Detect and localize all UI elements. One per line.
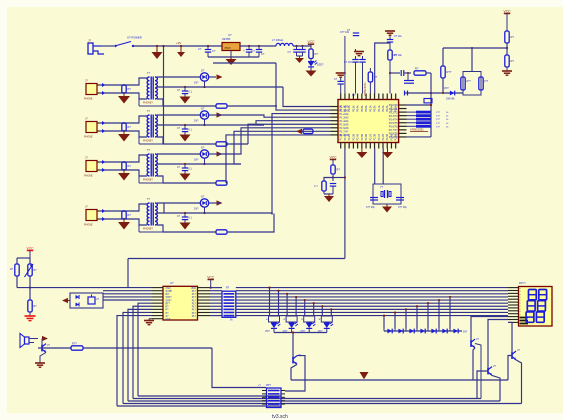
diode drop 4 — [416, 306, 418, 328]
svg-text:P2.0B: P2.0B — [374, 134, 377, 141]
transformer T4 — [147, 203, 149, 225]
level row resistor R (channel 3) — [163, 182, 216, 184]
V2 base wire from bottom loop — [475, 344, 481, 399]
wire comparator box top to divider rail — [471, 48, 473, 72]
diode drop 2 — [394, 312, 396, 328]
resistor R on chain to x431 — [414, 71, 426, 75]
svg-text:VD?: VD? — [265, 330, 270, 333]
svg-text:P0.1A: P0.1A — [378, 105, 381, 112]
filter cap C5 — [301, 45, 303, 47]
svg-text:P1.3/A3: P1.3/A3 — [340, 116, 350, 119]
transformer secondary top wire (channel 1) — [157, 76, 200, 78]
ground below LED — [310, 67, 312, 71]
speaker transistor Q — [41, 345, 43, 352]
bus wire channel3 level row to MCU pin 9 — [226, 135, 331, 183]
inverted ground + twin caps above MCU — [354, 51, 364, 53]
bright red ground bottom-left — [25, 315, 36, 317]
svg-text:R?: R? — [315, 52, 319, 56]
LED common rail — [274, 332, 327, 334]
svg-text:R?: R? — [415, 67, 419, 71]
digit transistor V4 — [511, 352, 513, 359]
bus wire aux row to MCU pin 2 — [276, 63, 331, 110]
crystal ground — [386, 204, 388, 207]
LED VD3 cathode wire — [308, 328, 310, 332]
IR box output wires to lower IC — [103, 290, 152, 292]
detector diode D (channel 1) — [200, 73, 208, 81]
LED VD4 box — [321, 316, 332, 322]
secondary bottom to level row (channel 2) — [157, 137, 163, 144]
svg-text:R?: R? — [511, 59, 515, 63]
LED VD4 cathode wire — [326, 328, 328, 332]
vertical wire x431 to MCU right pins — [430, 73, 432, 137]
detector diode D (channel 3) — [200, 150, 208, 158]
svg-text:C?: C? — [212, 49, 216, 53]
svg-text:PHONE: PHONE — [84, 175, 93, 178]
svg-text:+: + — [243, 49, 245, 53]
regulator U2 7805 — [222, 43, 240, 51]
svg-text:R??: R?? — [467, 81, 472, 83]
RC pair to ground below MCU — [324, 178, 333, 182]
input resistor R (channel 2) — [122, 123, 126, 131]
diode drop 3 — [405, 309, 407, 328]
LED VD4 — [324, 322, 330, 324]
wire connector top to transformer T3 primary — [100, 155, 147, 162]
wire connector top to transformer T1 primary — [100, 78, 147, 85]
detector diode D (channel 2) — [200, 111, 208, 119]
connector J5 (channel 4) — [86, 210, 97, 221]
diode drop 6 — [438, 300, 440, 328]
filter cap + ground (channel 4) — [184, 212, 186, 214]
5 blue bus bars right of MCU — [416, 111, 431, 114]
input resistor R (channel 4) — [122, 211, 126, 219]
transistor V1 (LED driver) — [292, 357, 294, 364]
svg-text:PL?: PL? — [192, 315, 197, 318]
wire connector bottom to transformer T4 primary — [100, 219, 147, 225]
display digit-select pin wires to transistors — [471, 317, 508, 341]
svg-text:P2.4B: P2.4B — [390, 134, 393, 141]
svg-text:P0.7A: P0.7A — [369, 105, 372, 112]
svg-text:P2.5B: P2.5B — [395, 134, 398, 141]
input capacitor C1 — [207, 45, 209, 47]
svg-text:R?: R? — [128, 125, 132, 129]
transformer T3 — [147, 154, 149, 176]
bus wire channel1 out to MCU pin 1 — [283, 87, 331, 107]
capacitor C3 — [258, 45, 260, 47]
base resistor row — [29, 342, 34, 344]
svg-text:P0.3A: P0.3A — [386, 105, 389, 112]
MCU top pin stubs — [340, 94, 342, 100]
transformer secondary top wire (channel 2) — [157, 114, 200, 116]
secondary bottom to level row (channel 3) — [157, 176, 163, 183]
lower IC U3 body — [163, 286, 198, 320]
svg-text:AT89C2051: AT89C2051 — [410, 128, 424, 132]
ground arrow on rail y380 — [360, 372, 369, 379]
svg-text:PHONE: PHONE — [84, 136, 93, 139]
svg-text:P2.3B: P2.3B — [352, 134, 355, 141]
resistor to ground bottom-left — [29, 288, 31, 300]
diode to output row wire (channel 1) — [204, 81, 206, 87]
svg-text:P2.1B: P2.1B — [378, 134, 381, 141]
diode VD? 1N4148 — [450, 91, 455, 96]
display bus lines from pack to display — [236, 287, 508, 289]
adjustable resistor (pot) right branch — [29, 258, 31, 264]
svg-text:PHONE?: PHONE? — [143, 102, 154, 105]
svg-text:1N?: 1N? — [194, 82, 199, 85]
bus wire channel3 out to MCU pin 8 — [234, 163, 241, 165]
svg-text:P0.2A: P0.2A — [382, 105, 385, 112]
svg-text:C ?: C ? — [314, 185, 318, 188]
filter cap C4 — [295, 45, 297, 47]
svg-text:tv3.sch: tv3.sch — [272, 414, 288, 420]
divider rail wire to comparator — [443, 47, 507, 49]
LED common to transistor V1 — [292, 333, 294, 357]
diode drop 1 — [383, 316, 385, 329]
svg-text:P1.5/A5: P1.5/A5 — [340, 123, 350, 126]
V4 base from rail y380 — [508, 356, 512, 381]
output row wire (channel 4) — [156, 212, 272, 214]
svg-text:P3.4/T4: P3.4/T4 — [389, 118, 398, 121]
filter cap + ground (channel 2) — [184, 124, 186, 126]
resistor R1 to power LED — [309, 49, 313, 59]
crystal circuit box — [374, 149, 376, 185]
bus wire channel2 out to MCU pin 5 — [256, 124, 264, 126]
svg-text:P2.2B: P2.2B — [348, 134, 351, 141]
bottom resistor pack RP2 — [267, 388, 282, 408]
svg-text:C? 104: C? 104 — [344, 61, 352, 64]
diode to output row wire (channel 3) — [204, 158, 206, 164]
ground below MCU pin x387.5 — [387, 149, 389, 153]
long rail y380 — [291, 379, 508, 381]
svg-text:1N4148: 1N4148 — [446, 98, 455, 101]
svg-text:R?: R? — [337, 168, 341, 172]
svg-text:P2.7B: P2.7B — [369, 134, 372, 141]
svg-text:PHONE?: PHONE? — [143, 228, 154, 231]
arrow left of IR box — [62, 298, 68, 303]
wire speaker top to arrow — [29, 338, 38, 340]
input resistor R (channel 1) — [122, 85, 126, 93]
wire connector bottom to transformer T2 primary — [100, 131, 147, 137]
long horizontal to lower-left loop — [128, 258, 345, 260]
MCU U1 (AT89C2051) body — [338, 100, 399, 143]
display digit-select internal bars — [520, 317, 529, 319]
wire switch to regulator (main +9V rail) — [133, 45, 222, 47]
long wire up from MCU pin x344.9 — [344, 36, 346, 94]
svg-text:C?: C? — [288, 50, 292, 54]
long vertical from MCU pin down to bottom loop — [344, 149, 346, 259]
svg-text:P1.2/A2: P1.2/A2 — [340, 113, 350, 116]
comparator line y93: cap, diode 1N4148 — [404, 92, 463, 94]
wire reset node to long vertical — [333, 177, 345, 179]
connector J4 (channel 3) — [86, 161, 97, 172]
svg-text:C?: C? — [261, 52, 265, 56]
LED VD3 drop wires — [304, 300, 306, 316]
IR receiver box U4 — [70, 293, 103, 308]
svg-text:VD?: VD? — [444, 87, 449, 90]
bottom loop horizontals to the right — [138, 395, 281, 397]
IR diode 2 — [76, 303, 80, 307]
display digits 888 — [529, 290, 537, 300]
svg-text:C? 10u: C? 10u — [394, 35, 402, 38]
connector J3 (channel 2) — [86, 122, 97, 133]
resistor above MCU pin x370.4 — [369, 82, 371, 94]
channel 4 level row riser — [216, 202, 221, 204]
LED VD2 box — [286, 316, 297, 322]
cap below chain — [407, 73, 409, 80]
speaker emitter to ground — [40, 352, 46, 363]
svg-text:U?: U? — [352, 93, 356, 97]
wire connector top to transformer T4 primary — [100, 204, 147, 211]
ground below MCU pin x361.9 — [361, 149, 363, 153]
secondary bottom to level row (channel 1) — [157, 99, 163, 106]
horizontal chain from reset node to right: cap + resistor — [390, 72, 400, 74]
svg-text:C?: C? — [198, 47, 202, 51]
svg-text:VSS: VSS — [166, 318, 171, 321]
diode output arrow (channel 1) — [209, 76, 216, 78]
svg-text:P0.1A: P0.1A — [344, 105, 347, 112]
ground for filter caps — [297, 55, 303, 57]
LED VD1 drop wires — [269, 288, 271, 316]
reset chain: top ground, cap, resistor (x390) — [385, 30, 395, 32]
svg-text:PHONE: PHONE — [84, 224, 93, 227]
transformer T1 — [147, 77, 149, 99]
svg-text:P0.5A: P0.5A — [395, 105, 398, 112]
level row resistor R (channel 2) — [163, 143, 216, 145]
power jack J1 — [88, 43, 93, 54]
svg-text:C??: C?? — [484, 81, 489, 83]
crystal Y1 — [384, 190, 386, 198]
resistor pack RP1 — [222, 291, 236, 317]
diode output arrow (channel 4) — [209, 202, 216, 204]
svg-text:L? 100uH: L? 100uH — [272, 38, 283, 42]
svg-text:P2.1B: P2.1B — [344, 134, 347, 141]
output capacitor C2 (+) — [248, 45, 250, 47]
ground at lower IC pin 11 — [149, 318, 152, 320]
diode output arrow (channel 2) — [209, 114, 216, 116]
svg-text:R??: R?? — [72, 342, 77, 346]
V2 emitter down to rail y380 — [473, 348, 475, 380]
diode to output row wire (channel 2) — [204, 119, 206, 125]
LED VD4 drop wires — [321, 306, 323, 316]
svg-text:R??: R?? — [447, 70, 452, 74]
svg-text:P3.6/T6: P3.6/T6 — [389, 126, 398, 129]
wire regulator output — [240, 45, 276, 47]
nested wires lower IC pins 6-10 to bottom loop — [138, 303, 152, 396]
lower IC left pin stubs — [152, 287, 163, 289]
series diodes — [387, 329, 392, 334]
svg-text:RP?: RP? — [266, 384, 271, 387]
svg-text:1N?: 1N? — [194, 208, 199, 211]
svg-text:P1.4/A4: P1.4/A4 — [340, 120, 350, 123]
LED VD1 box — [269, 316, 280, 322]
svg-text:D?: D? — [201, 146, 205, 150]
svg-text:LM7805: LM7805 — [222, 39, 231, 41]
LED VD2 cathode wire — [291, 328, 293, 332]
wire connector top to transformer T2 primary — [100, 116, 147, 123]
crystal load cap left — [370, 197, 378, 199]
ground below switch — [156, 46, 158, 52]
LED VD3 — [306, 322, 312, 324]
svg-text:S? POWER: S? POWER — [127, 36, 142, 40]
wire connector bottom to transformer T1 primary — [100, 93, 147, 99]
svg-text:P2.2B: P2.2B — [382, 134, 385, 141]
V4 emitter to loop — [516, 360, 522, 404]
V3 base from bottom loop — [477, 371, 488, 399]
ground below channel 4 input resistor — [123, 219, 125, 222]
svg-text:P0.0A: P0.0A — [374, 105, 377, 112]
svg-text:P0.5A: P0.5A — [361, 105, 364, 112]
ground below channel 3 input resistor — [123, 170, 125, 173]
svg-text:R?: R? — [128, 87, 132, 91]
svg-text:R?: R? — [128, 213, 132, 217]
svg-text:P0.0A: P0.0A — [340, 105, 343, 112]
long wire pot node to lower IC pin1 — [17, 287, 152, 289]
svg-text:P0.3A: P0.3A — [352, 105, 355, 112]
diode drop 5 — [427, 303, 429, 328]
V1 collector loop to pack top — [285, 356, 305, 391]
ground rail under regulator — [208, 56, 259, 58]
series resistor and arrow on MCU pin8 row — [303, 129, 313, 133]
svg-text:7805: 7805 — [224, 46, 231, 50]
short vertical in channel 4 region — [163, 203, 165, 213]
digit transistor V3 — [487, 368, 489, 375]
transformer secondary top wire (channel 4) — [157, 202, 200, 204]
svg-text:DPY?: DPY? — [519, 282, 526, 285]
svg-text:R? 10k: R? 10k — [394, 54, 402, 57]
V3 emitter to loop — [492, 375, 500, 401]
svg-text:P2.0B: P2.0B — [340, 134, 343, 141]
svg-text:1N?: 1N? — [463, 332, 468, 334]
lower-left loop vertical — [127, 259, 129, 289]
digit transistor V2 — [470, 340, 472, 347]
IR diode 1 — [76, 295, 80, 299]
pot divider box — [17, 257, 30, 259]
ground below channel 2 input resistor — [123, 131, 125, 134]
output row wire (channel 1) — [156, 86, 283, 88]
level row resistor R (channel 1) — [163, 105, 216, 107]
svg-text:R?: R? — [128, 164, 132, 168]
diode drop 7 — [449, 297, 451, 329]
channel 1 aux row wire — [213, 62, 276, 64]
secondary bottom to level row (channel 4) — [157, 225, 163, 232]
svg-text:P2.6B: P2.6B — [365, 134, 368, 141]
detector diode D (channel 4) — [200, 199, 208, 207]
svg-text:P3.3/T3: P3.3/T3 — [389, 115, 398, 118]
decoupling cap C on MCU pin (x340.7) — [340, 84, 342, 94]
svg-text:P1.7/A7: P1.7/A7 — [340, 131, 350, 134]
LED VD1 — [271, 322, 277, 324]
wire to bottom pack — [212, 348, 266, 388]
svg-text:+9V: +9V — [176, 41, 181, 45]
svg-text:C?? 30p: C?? 30p — [366, 207, 375, 209]
svg-text:P0.4A: P0.4A — [390, 105, 393, 112]
MCU bottom pin stubs — [340, 143, 342, 149]
svg-text:J?: J? — [88, 39, 91, 43]
wire connector bottom to transformer T3 primary — [100, 170, 147, 176]
bus wire channel4 out to MCU pin 3 — [272, 114, 331, 213]
svg-text:P0.4A: P0.4A — [357, 105, 360, 112]
output row wire (channel 3) — [156, 163, 241, 165]
svg-text:LED?: LED? — [317, 63, 324, 67]
resistor R from divider rail down (x443) — [442, 48, 444, 66]
svg-text:1N?: 1N? — [194, 159, 199, 162]
inductor L1 — [276, 43, 293, 46]
7-segment display DS1 body — [519, 287, 553, 327]
LED VD2 — [289, 322, 295, 324]
IR module cap — [88, 297, 95, 304]
svg-text:P0.2A: P0.2A — [348, 105, 351, 112]
svg-text:D?: D? — [201, 107, 205, 111]
svg-text:P2.3B: P2.3B — [386, 134, 389, 141]
transformer secondary top wire (channel 3) — [157, 153, 200, 155]
svg-text:1N?: 1N? — [194, 120, 199, 123]
comparator box with two resistors — [463, 72, 481, 96]
svg-text:U?: U? — [170, 281, 174, 285]
bus wire channel2 diode row to MCU pin 4 — [216, 115, 331, 117]
output row wire (channel 2) — [156, 124, 264, 126]
bus wire channel2 level row to MCU pin 6 — [248, 124, 331, 144]
level row resistor R (channel 4) — [163, 231, 216, 233]
svg-text:PHONE?: PHONE? — [143, 140, 154, 143]
MCU right pin stubs — [399, 104, 407, 106]
diode row horizontal — [384, 330, 462, 332]
LED VD3 box — [304, 316, 315, 322]
small component on MCU right pin row1 — [424, 99, 432, 103]
wire jack to switch — [101, 45, 114, 47]
crystal load cap right — [396, 197, 404, 199]
filter cap + ground (channel 3) — [184, 163, 186, 165]
svg-text:P2.4B: P2.4B — [357, 134, 360, 141]
MCU left pin stubs — [331, 106, 339, 108]
switch S1 POWER — [114, 45, 116, 47]
LED VD1 cathode wire — [273, 328, 275, 332]
transformer T2 — [147, 115, 149, 137]
V1 emitter to long rail — [291, 364, 297, 380]
bus wire channel3 diode row to MCU pin 7 — [216, 128, 331, 154]
ground below channel 1 input resistor — [123, 93, 125, 96]
svg-text:P1.6/A6: P1.6/A6 — [340, 127, 350, 130]
svg-text:C?? 30p: C?? 30p — [398, 207, 407, 209]
svg-text:P0.6A: P0.6A — [365, 105, 368, 112]
svg-text:PHONE: PHONE — [84, 98, 93, 101]
long vertical from +9V rail down left of channels — [163, 46, 165, 144]
input resistor R (channel 3) — [122, 162, 126, 170]
svg-text:C?: C? — [252, 49, 256, 53]
diode output arrow (channel 3) — [209, 153, 216, 155]
svg-text:R?: R? — [511, 35, 515, 39]
connector J2 (channel 1) — [86, 84, 97, 95]
speaker LS1 — [25, 337, 30, 344]
svg-text:D?: D? — [201, 69, 205, 73]
LED VD2 drop wires — [286, 294, 288, 316]
lower IC right pin stubs — [198, 287, 211, 289]
bus lines from IC to pack — [210, 287, 222, 289]
svg-text:P2.5B: P2.5B — [361, 134, 364, 141]
svg-text:U?: U? — [228, 33, 232, 37]
filter cap + ground (channel 1) — [184, 86, 186, 88]
svg-text:P3.5/T5: P3.5/T5 — [389, 122, 398, 125]
power LED D1 — [308, 61, 314, 63]
svg-text:PHONE?: PHONE? — [143, 179, 154, 182]
display pin stubs — [508, 287, 519, 289]
cap above twin-cap ground — [353, 32, 359, 34]
diode to output row wire (channel 4) — [204, 207, 206, 213]
svg-text:P3.7/T7: P3.7/T7 — [389, 129, 398, 132]
svg-text:AT89C4051: AT89C4051 — [363, 82, 367, 96]
svg-text:D?: D? — [201, 195, 205, 199]
wire MCU pin x374.7 up to reset chain — [375, 43, 390, 94]
wire inductor to VCC node — [293, 45, 311, 47]
